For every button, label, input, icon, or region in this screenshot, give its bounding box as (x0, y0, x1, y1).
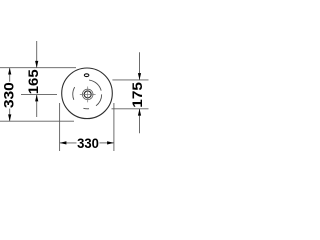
svg-text:330: 330 (0, 82, 16, 108)
svg-text:330: 330 (77, 136, 99, 151)
svg-text:175: 175 (129, 82, 145, 108)
svg-text:165: 165 (25, 69, 41, 94)
